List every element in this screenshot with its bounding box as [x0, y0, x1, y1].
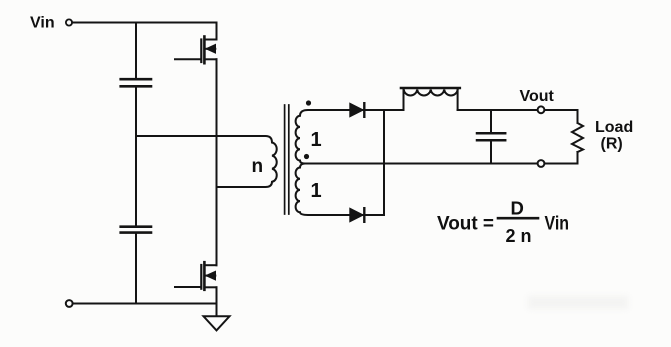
svg-text:Vout =: Vout =: [437, 214, 494, 235]
transistor Q1 drain stub: [205, 39, 217, 41]
faint watermark smudge: [528, 296, 628, 309]
transistor Q2 body tick: [205, 275, 215, 277]
transistor Q1 channel bar: [203, 37, 206, 64]
inductor L1 scallops: [404, 90, 458, 96]
transformer T1 secondary winding S2 (bottom, 1 turn ratio): [296, 164, 350, 216]
wire bottom rail (return terminal to Q2 source): [73, 303, 216, 305]
polarity dot S1: [306, 100, 311, 105]
inductor L1 right leg: [457, 89, 459, 110]
wire C1 to mid node: [135, 88, 137, 137]
capacitor C3 top plate: [477, 132, 505, 135]
wire rectifier junction vertical (D1 cathode to D2 cathode): [383, 110, 385, 215]
transistor Q2 channel bar: [203, 262, 206, 290]
capacitor C1 bottom plate: [121, 85, 151, 88]
transistor Q1 body tick: [205, 48, 215, 50]
svg-text:n: n: [252, 156, 264, 177]
transformer T1 secondary winding S1 (top, 1 turn ratio): [296, 110, 350, 164]
wire mid rail (cap midpoint to transformer primary top): [136, 135, 262, 137]
resistor Load R (zigzag): [572, 123, 583, 152]
transistor Q2 body-diode arrow (points left): [206, 271, 215, 279]
ground symbol: [204, 316, 230, 330]
wire C2 to bottom rail: [135, 234, 137, 304]
wire output cap top stub: [490, 110, 492, 132]
transistor Q1 gate bar: [200, 40, 202, 63]
inductor L1 top bar: [401, 87, 460, 90]
transistor Q2 source stub: [205, 286, 217, 288]
wire output bottom rail (center tap to load corner): [303, 163, 578, 165]
transistor Q2 drain stub: [205, 264, 217, 266]
wire output top rail (inductor to load corner): [458, 109, 578, 111]
wire input capacitor branch vertical (top rail to C1): [135, 23, 137, 79]
diode D1 anode wire: [348, 109, 384, 111]
wire switch node vertical (Q1 source to Q2 drain, crosses mid rail): [216, 59, 218, 265]
svg-text:(R): (R): [601, 136, 623, 153]
transformer T1 primary winding (n turns, arcs bulge right): [260, 136, 277, 187]
svg-text:Vin: Vin: [30, 15, 55, 32]
capacitor C2 bottom plate: [121, 231, 151, 234]
svg-text:Load: Load: [595, 119, 633, 136]
svg-text:1: 1: [311, 180, 322, 202]
svg-text:Vout: Vout: [520, 88, 555, 105]
svg-text:Vin: Vin: [545, 214, 570, 235]
formula fraction bar: [498, 217, 538, 220]
diode D1 (triangle): [350, 103, 364, 117]
wire top rail from Vin terminal to Q1 drain corner: [72, 22, 216, 24]
diode D2 (triangle): [350, 208, 364, 222]
transistor Q1 gate lead wire: [175, 58, 201, 60]
polarity dot S2: [304, 154, 309, 159]
wire load top drop: [577, 110, 579, 122]
svg-text:1: 1: [311, 129, 322, 151]
svg-text:2 n: 2 n: [506, 226, 532, 246]
capacitor C3 bottom plate: [477, 139, 505, 142]
capacitor C1 top plate: [121, 78, 151, 81]
terminal Vin (open circle): [66, 19, 72, 25]
transistor Q1 source stub: [205, 58, 217, 60]
transistor Q2 gate bar: [200, 265, 202, 289]
diode D2 cathode bar: [363, 208, 365, 222]
diode D2 anode wire: [348, 214, 384, 216]
wire load bottom drop: [577, 152, 579, 164]
svg-text:D: D: [511, 198, 524, 219]
wire primary bottom lead to switch node: [217, 186, 264, 188]
diode D1 cathode bar: [363, 103, 365, 117]
terminal Vout+ (open circle): [538, 106, 545, 113]
transistor Q1 body-diode arrow (points left): [206, 45, 215, 53]
transformer T1 core (two vertical bars): [284, 105, 286, 214]
transistor Q2 gate lead wire: [175, 286, 201, 288]
wire Q1 drain drop: [216, 23, 218, 40]
wire Q2 source to ground: [216, 287, 218, 316]
wire mid node to C2: [135, 136, 137, 225]
terminal Vout- (open circle): [538, 160, 545, 167]
inductor L1 left leg: [403, 89, 405, 110]
capacitor C2 top plate: [121, 225, 151, 228]
wire output cap bottom stub: [490, 142, 492, 164]
terminal input return (open circle): [66, 300, 73, 307]
wire D1 output to inductor left leg: [384, 109, 404, 111]
